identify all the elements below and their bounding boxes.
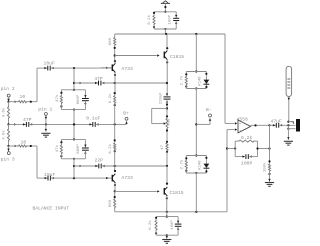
svg-text:K148: K148 xyxy=(199,160,203,170)
svg-text:10: 10 xyxy=(20,94,26,100)
svg-text:pin 3: pin 3 xyxy=(1,156,15,162)
svg-text:4.6k: 4.6k xyxy=(2,130,7,140)
svg-text:10: 10 xyxy=(21,139,27,145)
svg-text:220uF: 220uF xyxy=(159,92,163,105)
svg-text:680: 680 xyxy=(109,37,113,45)
svg-text:6.2k: 6.2k xyxy=(108,143,113,153)
svg-text:47P: 47P xyxy=(94,76,103,82)
svg-text:680P: 680P xyxy=(77,144,81,154)
svg-text:6.2k: 6.2k xyxy=(147,14,152,24)
svg-text:A733: A733 xyxy=(122,66,133,72)
svg-text:0.1uF: 0.1uF xyxy=(86,115,100,121)
svg-text:C1815: C1815 xyxy=(170,190,184,196)
svg-text:B-: B- xyxy=(206,107,212,113)
svg-text:100P: 100P xyxy=(241,161,252,167)
svg-text:4.6k: 4.6k xyxy=(2,107,7,117)
svg-text:47P: 47P xyxy=(23,117,32,123)
svg-text:47k: 47k xyxy=(55,145,60,153)
svg-text:500: 500 xyxy=(168,118,172,126)
svg-text:10uF: 10uF xyxy=(44,60,55,66)
svg-text:100k: 100k xyxy=(263,162,268,172)
svg-text:2.7k: 2.7k xyxy=(180,159,185,169)
svg-text:B+: B+ xyxy=(123,110,129,116)
svg-text:C1815: C1815 xyxy=(170,54,184,60)
svg-text:-: - xyxy=(239,130,241,134)
svg-text:6.2k: 6.2k xyxy=(148,220,153,230)
svg-text:47: 47 xyxy=(161,144,165,149)
svg-text:BALANCE INPUT: BALANCE INPUT xyxy=(33,205,70,211)
svg-text:A733: A733 xyxy=(122,175,133,181)
svg-text:K148: K148 xyxy=(199,76,203,86)
svg-text:22P: 22P xyxy=(95,158,104,164)
svg-text:680: 680 xyxy=(109,199,113,207)
svg-text:+: + xyxy=(239,123,241,127)
svg-text:2.7k: 2.7k xyxy=(180,75,185,85)
svg-text:6.2k: 6.2k xyxy=(108,93,113,103)
svg-text:100P: 100P xyxy=(171,220,175,230)
svg-text:680P: 680P xyxy=(77,94,81,104)
svg-text:pin 2: pin 2 xyxy=(1,86,15,92)
svg-text:100P: 100P xyxy=(169,14,173,24)
svg-text:47k: 47k xyxy=(55,94,60,102)
svg-text:pin 1: pin 1 xyxy=(38,107,52,113)
svg-text:6.2k: 6.2k xyxy=(241,135,252,141)
